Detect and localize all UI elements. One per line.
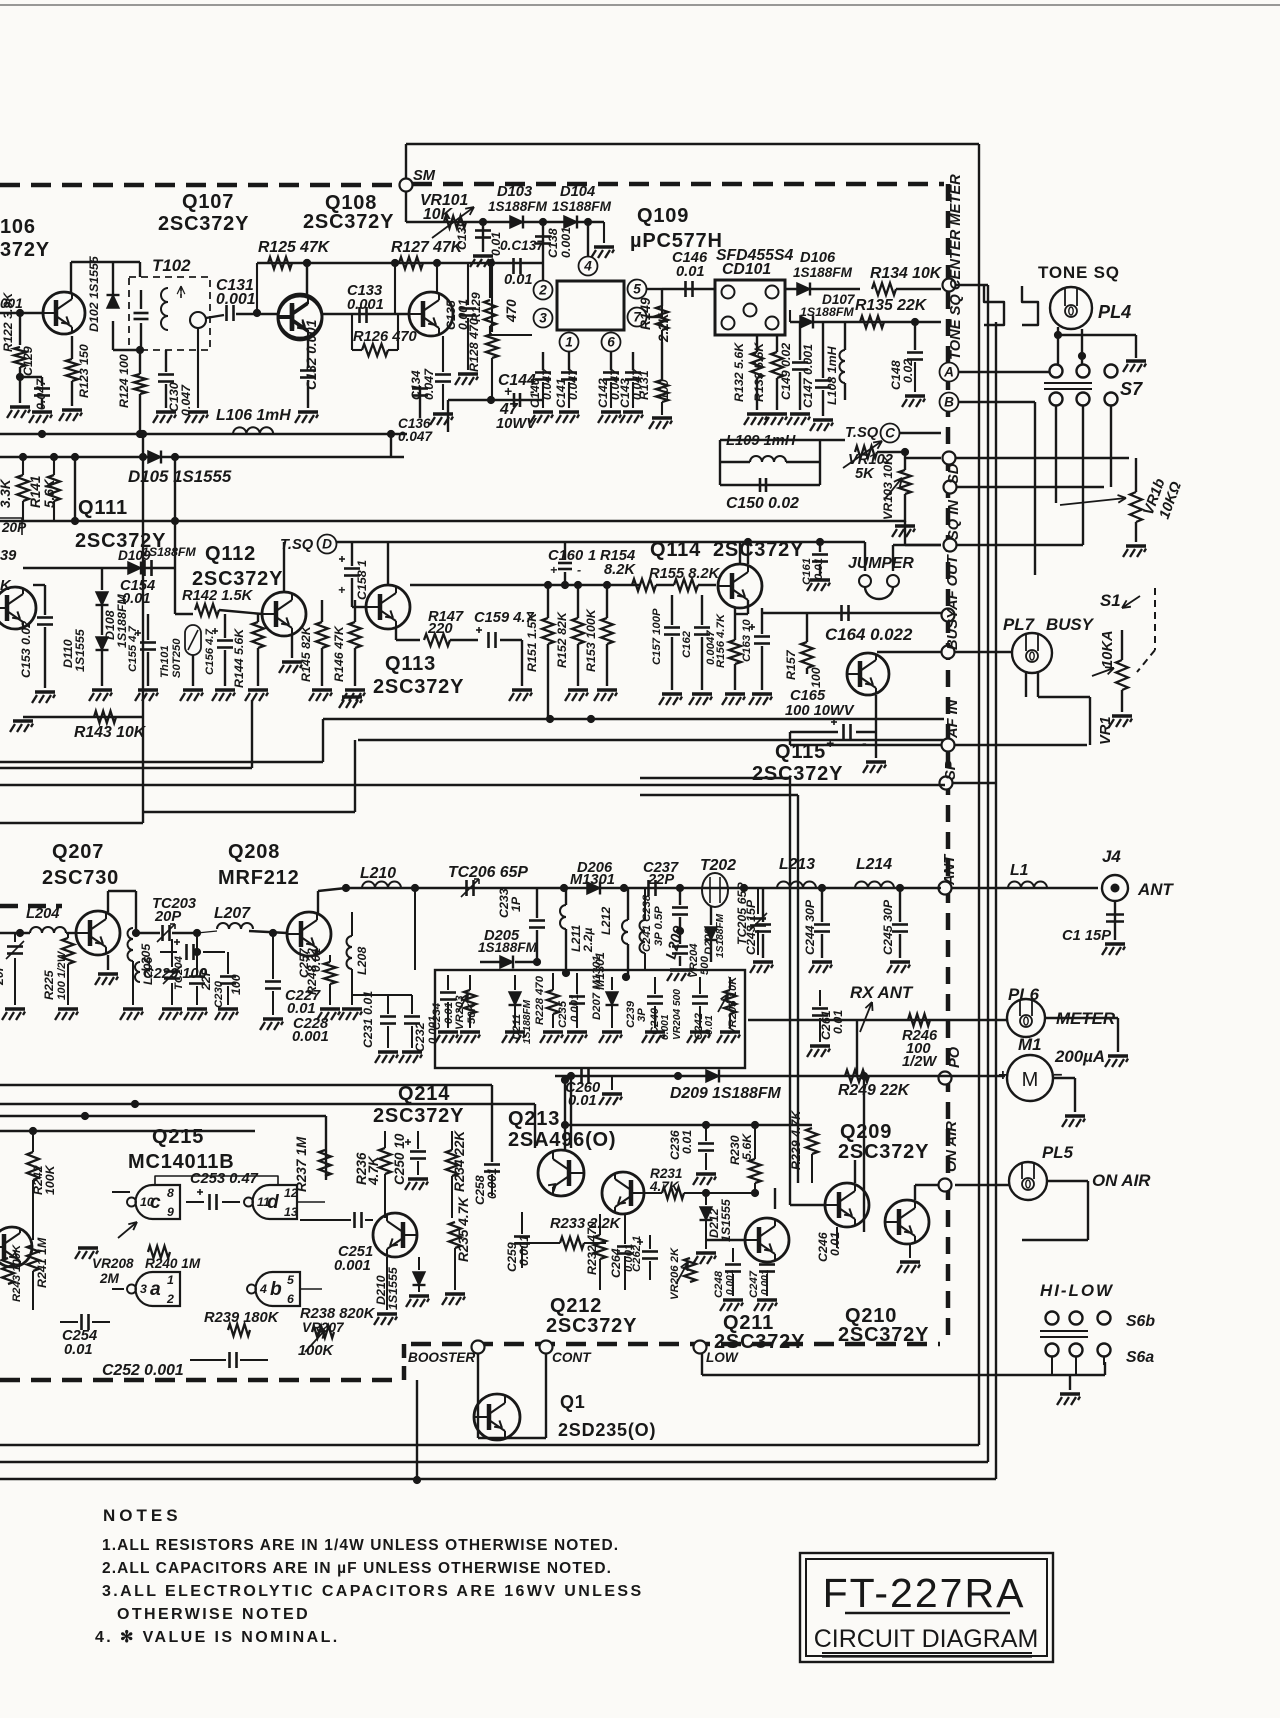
svg-text:R243 100K: R243 100K: [11, 1244, 23, 1302]
svg-text:C252 0.001: C252 0.001: [102, 1362, 184, 1379]
svg-text:T102: T102: [152, 256, 191, 275]
svg-text:100: 100: [229, 974, 243, 995]
svg-text:D209 1S188FM: D209 1S188FM: [670, 1085, 781, 1102]
svg-text:Q209: Q209: [840, 1121, 892, 1143]
svg-text:20P: 20P: [1, 520, 27, 535]
svg-text:+: +: [826, 736, 834, 751]
svg-text:R128 470: R128 470: [467, 318, 481, 372]
svg-text:L208: L208: [355, 947, 369, 975]
svg-text:Q1: Q1: [560, 1392, 586, 1412]
svg-text:2SC372Y: 2SC372Y: [373, 1105, 464, 1127]
svg-text:L210: L210: [360, 865, 396, 882]
svg-text:R234 22K: R234 22K: [452, 1130, 467, 1192]
svg-text:C155 4.7: C155 4.7: [127, 625, 139, 672]
svg-text:R225: R225: [42, 969, 56, 1000]
svg-text:2M: 2M: [99, 1271, 120, 1286]
svg-text:L204: L204: [26, 906, 59, 922]
svg-text:2SC372Y: 2SC372Y: [752, 763, 843, 785]
svg-text:R229 4.7K: R229 4.7K: [789, 1110, 803, 1170]
svg-text:S6b: S6b: [1126, 1313, 1155, 1330]
svg-text:Q212: Q212: [550, 1295, 602, 1317]
svg-text:-: -: [577, 563, 581, 577]
svg-text:C153 0.02: C153 0.02: [19, 621, 33, 678]
svg-text:C163 10: C163 10: [741, 619, 753, 662]
svg-text:1S188FM: 1S188FM: [478, 940, 538, 955]
svg-text:C248: C248: [713, 1270, 725, 1298]
svg-text:R153 100K: R153 100K: [584, 608, 598, 672]
svg-text:R125 47K: R125 47K: [258, 239, 331, 256]
svg-text:22P: 22P: [199, 967, 213, 991]
svg-text:-: -: [530, 384, 535, 399]
svg-text:M1: M1: [1018, 1035, 1041, 1054]
svg-text:2SC372Y: 2SC372Y: [192, 568, 283, 590]
svg-text:1S188FM: 1S188FM: [488, 199, 548, 214]
svg-text:3.ALL ELECTROLYTIC CAPACITORS: 3.ALL ELECTROLYTIC CAPACITORS ARE 16WV U…: [102, 1583, 644, 1600]
svg-text:D207 M1301: D207 M1301: [591, 955, 603, 1020]
svg-text:Q111: Q111: [78, 497, 128, 519]
svg-text:JUMPER: JUMPER: [848, 555, 914, 572]
svg-text:R135 22K: R135 22K: [855, 297, 928, 314]
svg-text:0.001: 0.001: [216, 291, 256, 308]
svg-text:D104: D104: [560, 184, 595, 200]
svg-text:2SC372Y: 2SC372Y: [303, 211, 394, 233]
svg-text:C231 0.01: C231 0.01: [361, 991, 375, 1048]
svg-text:5K: 5K: [855, 466, 875, 482]
svg-text:0.01: 0.01: [64, 1342, 93, 1358]
svg-text:R228 470: R228 470: [534, 975, 546, 1025]
svg-text:100: 100: [809, 667, 823, 688]
svg-text:0.01: 0.01: [813, 558, 825, 580]
svg-text:3P: 3P: [636, 1008, 648, 1022]
svg-text:1S188FM: 1S188FM: [793, 265, 853, 280]
svg-text:d: d: [267, 1192, 280, 1213]
svg-text:−: −: [1053, 1067, 1062, 1084]
svg-text:100K: 100K: [43, 1164, 57, 1195]
svg-text:ON AIR: ON AIR: [1092, 1171, 1151, 1190]
svg-text:200µA: 200µA: [1054, 1047, 1105, 1066]
svg-text:C150 0.02: C150 0.02: [726, 495, 799, 512]
svg-text:a: a: [150, 1279, 161, 1300]
svg-text:2: 2: [166, 1292, 174, 1306]
svg-text:VR204 500: VR204 500: [672, 989, 683, 1040]
svg-text:1S1555: 1S1555: [386, 1266, 400, 1310]
svg-text:Q208: Q208: [228, 841, 280, 863]
svg-text:2SC372Y: 2SC372Y: [838, 1141, 929, 1163]
svg-text:BUSY: BUSY: [945, 608, 961, 650]
svg-text:L108 1mH: L108 1mH: [825, 345, 839, 405]
svg-text:CONT: CONT: [552, 1350, 592, 1365]
svg-text:T202: T202: [700, 857, 736, 874]
svg-text:R239 180K: R239 180K: [204, 1310, 280, 1326]
svg-text:0.01: 0.01: [504, 272, 533, 288]
svg-text:0.02: 0.02: [901, 359, 915, 383]
svg-text:1: 1: [167, 1273, 174, 1287]
svg-text:D106: D106: [800, 250, 836, 266]
svg-text:R143 10K: R143 10K: [74, 724, 147, 741]
svg-text:R157: R157: [784, 649, 798, 680]
svg-text:R237 1M: R237 1M: [294, 1136, 309, 1192]
svg-text:2SC372Y: 2SC372Y: [158, 213, 249, 235]
svg-text:BOOSTER: BOOSTER: [408, 1350, 475, 1365]
svg-text:B: B: [944, 394, 954, 409]
svg-text:Q214: Q214: [398, 1083, 450, 1105]
svg-text:4: 4: [259, 1282, 267, 1296]
svg-text:L212: L212: [599, 907, 613, 935]
svg-text:µPC577H: µPC577H: [630, 230, 723, 252]
svg-text:D103: D103: [497, 184, 532, 200]
svg-text:1: 1: [565, 334, 573, 349]
svg-text:0.01: 0.01: [831, 1010, 845, 1034]
svg-text:AF IN: AF IN: [945, 699, 961, 739]
svg-text:C156 4.7: C156 4.7: [204, 628, 216, 675]
svg-text:0.01: 0.01: [828, 1232, 842, 1256]
svg-text:100: 100: [657, 379, 671, 400]
svg-text:C235: C235: [557, 1000, 569, 1028]
svg-text:8: 8: [167, 1186, 174, 1200]
svg-text:C164 0.022: C164 0.022: [825, 625, 913, 644]
svg-text:1S1555: 1S1555: [719, 1198, 733, 1242]
svg-text:Q113: Q113: [385, 653, 436, 675]
svg-text:R240 1M: R240 1M: [145, 1256, 201, 1271]
svg-text:OTHERWISE NOTED: OTHERWISE NOTED: [117, 1606, 310, 1623]
svg-text:Q107: Q107: [182, 191, 234, 213]
svg-text:106: 106: [0, 216, 36, 238]
svg-text:TONE SQ: TONE SQ: [1038, 263, 1120, 282]
svg-text:2SC372Y: 2SC372Y: [838, 1324, 929, 1346]
svg-text:C158 1: C158 1: [355, 560, 369, 600]
svg-text:0.01: 0.01: [489, 232, 503, 256]
svg-text:1S188FM: 1S188FM: [715, 913, 726, 958]
svg-text:22P: 22P: [647, 872, 674, 888]
svg-text:L214: L214: [856, 856, 892, 873]
svg-text:6: 6: [287, 1292, 294, 1306]
svg-text:+: +: [504, 384, 512, 399]
svg-text:C247: C247: [748, 1270, 760, 1298]
svg-text:ON AIR: ON AIR: [944, 1121, 960, 1172]
svg-text:4.7K: 4.7K: [366, 1155, 381, 1186]
svg-text:100K: 100K: [298, 1343, 335, 1359]
svg-text:R144 5.6K: R144 5.6K: [232, 628, 246, 688]
svg-text:0.01: 0.01: [680, 1130, 694, 1154]
svg-text:2.2µ: 2.2µ: [581, 928, 595, 953]
svg-text:372Y: 372Y: [0, 239, 50, 261]
svg-text:R145 82K: R145 82K: [299, 625, 313, 682]
svg-text:FT-227RA: FT-227RA: [823, 1570, 1026, 1616]
svg-text:VR1: VR1: [1098, 716, 1114, 745]
svg-text:R124 100: R124 100: [117, 354, 131, 408]
svg-text:R127 47K: R127 47K: [391, 239, 464, 256]
svg-text:39: 39: [0, 548, 17, 564]
svg-text:C162: C162: [681, 630, 693, 658]
svg-text:J4: J4: [1102, 847, 1121, 866]
svg-text:5: 5: [633, 281, 641, 296]
svg-text:0.001: 0.001: [334, 1258, 371, 1274]
svg-text:VR205 10K: VR205 10K: [727, 976, 739, 1035]
svg-text:L213: L213: [779, 856, 815, 873]
svg-text:10WV: 10WV: [496, 416, 537, 432]
svg-text:3.3K: 3.3K: [0, 478, 13, 508]
svg-text:9: 9: [167, 1205, 174, 1219]
svg-text:R156 4.7K: R156 4.7K: [715, 613, 727, 668]
svg-text:R141: R141: [28, 476, 43, 509]
svg-text:0.001: 0.001: [347, 297, 384, 313]
svg-text:470: 470: [504, 299, 519, 323]
svg-text:M: M: [1022, 1069, 1039, 1091]
svg-text:NOTES: NOTES: [103, 1506, 182, 1525]
svg-text:0.001: 0.001: [569, 994, 581, 1022]
svg-text:+: +: [550, 563, 557, 577]
svg-text:3: 3: [539, 310, 547, 325]
svg-text:2SC372Y: 2SC372Y: [546, 1315, 637, 1337]
svg-text:S0T250: S0T250: [171, 638, 183, 678]
svg-text:1/2W: 1/2W: [902, 1054, 937, 1070]
svg-text:C129: C129: [21, 346, 35, 376]
svg-text:1S188FM: 1S188FM: [142, 545, 196, 559]
svg-text:220: 220: [427, 621, 453, 637]
svg-text:C232: C232: [413, 1022, 427, 1052]
svg-text:ANT: ANT: [1137, 880, 1174, 899]
svg-text:Th101: Th101: [159, 645, 171, 678]
svg-text:8.2K: 8.2K: [604, 562, 636, 578]
svg-text:R134 10K: R134 10K: [870, 265, 943, 282]
svg-text:HI-LOW: HI-LOW: [1040, 1281, 1114, 1300]
svg-text:2SC372Y: 2SC372Y: [373, 676, 464, 698]
svg-text:VR103 10K: VR103 10K: [881, 455, 895, 520]
svg-text:R151 1.5K: R151 1.5K: [525, 612, 539, 672]
svg-text:SQ IN: SQ IN: [946, 500, 962, 540]
svg-text:+: +: [338, 583, 345, 597]
svg-text:PL4: PL4: [1098, 302, 1131, 322]
svg-text:C241 C238: C241 C238: [641, 894, 653, 952]
svg-text:SD: SD: [946, 463, 962, 484]
svg-text:20P: 20P: [0, 962, 6, 986]
svg-text:2SA496(O): 2SA496(O): [508, 1129, 616, 1151]
svg-text:5: 5: [287, 1273, 295, 1287]
svg-text:0.001: 0.001: [559, 227, 573, 258]
svg-text:D102 1S1555: D102 1S1555: [87, 255, 101, 332]
svg-text:1S188FM: 1S188FM: [522, 999, 533, 1044]
svg-text:13: 13: [284, 1205, 298, 1219]
svg-text:R146 47K: R146 47K: [332, 625, 346, 682]
svg-text:S6a: S6a: [1126, 1349, 1154, 1366]
svg-text:b: b: [270, 1279, 282, 1300]
svg-text:0.01: 0.01: [309, 948, 323, 972]
svg-text:RX ANT: RX ANT: [850, 983, 914, 1002]
svg-text:3P 0.5P: 3P 0.5P: [653, 906, 665, 946]
svg-text:C244 30P: C244 30P: [803, 899, 817, 955]
svg-text:1S188FM: 1S188FM: [552, 199, 612, 214]
svg-text:+: +: [998, 1067, 1007, 1084]
svg-text:C138: C138: [546, 228, 560, 258]
svg-text:ANT: ANT: [942, 854, 958, 886]
svg-text:-: -: [862, 736, 867, 751]
svg-text:5.6K: 5.6K: [740, 1133, 754, 1160]
svg-text:LOW: LOW: [706, 1350, 739, 1365]
svg-text:0.01: 0.01: [676, 264, 705, 280]
svg-text:3: 3: [140, 1282, 147, 1296]
svg-text:AF OUT: AF OUT: [945, 554, 961, 611]
svg-text:0.047: 0.047: [566, 368, 580, 400]
svg-text:C157 100P: C157 100P: [651, 608, 663, 665]
svg-text:S7: S7: [1120, 379, 1143, 399]
svg-text:1.ALL RESISTORS ARE IN 1/4W UN: 1.ALL RESISTORS ARE IN 1/4W UNLESS OTHER…: [102, 1537, 619, 1554]
svg-text:R232 470: R232 470: [585, 1221, 599, 1275]
svg-text:BUSY: BUSY: [1046, 615, 1095, 634]
svg-text:C243 15P: C243 15P: [744, 899, 758, 955]
svg-text:VR206 2K: VR206 2K: [669, 1247, 681, 1300]
svg-text:4. ✻ VALUE IS NOMINAL.: 4. ✻ VALUE IS NOMINAL.: [95, 1629, 340, 1646]
svg-text:VR208: VR208: [92, 1256, 134, 1271]
svg-text:C230: C230: [213, 980, 225, 1008]
svg-text:Q215: Q215: [152, 1126, 204, 1148]
svg-text:CIRCUIT DIAGRAM: CIRCUIT DIAGRAM: [814, 1625, 1039, 1653]
svg-text:R123 150: R123 150: [77, 344, 91, 398]
svg-text:0.001: 0.001: [725, 1269, 736, 1295]
svg-text:10K: 10K: [423, 206, 454, 223]
svg-text:SP: SP: [943, 760, 959, 780]
svg-text:R149: R149: [638, 297, 653, 330]
svg-text:R122 3.9K: R122 3.9K: [1, 292, 15, 352]
svg-text:Q109: Q109: [637, 205, 689, 227]
svg-text:C161: C161: [801, 558, 813, 585]
svg-text:PO: PO: [947, 1046, 963, 1068]
svg-text:2.ALL CAPACITORS ARE IN µF UNL: 2.ALL CAPACITORS ARE IN µF UNLESS OTHERW…: [102, 1560, 612, 1577]
svg-text:Q207: Q207: [52, 841, 104, 863]
svg-text:C: C: [885, 425, 895, 440]
svg-text:C139: C139: [455, 220, 469, 250]
svg-text:Q112: Q112: [205, 543, 256, 565]
svg-text:1P: 1P: [509, 896, 523, 912]
svg-text:0.001: 0.001: [292, 1029, 329, 1045]
svg-text:0.047: 0.047: [34, 378, 48, 410]
svg-text:C245 30P: C245 30P: [881, 899, 895, 955]
svg-text:R235 4.7K: R235 4.7K: [456, 1196, 471, 1262]
svg-text:C147 0.001: C147 0.001: [801, 344, 815, 408]
svg-text:D208: D208: [703, 927, 715, 955]
svg-text:20P: 20P: [154, 909, 181, 925]
svg-text:L207: L207: [214, 905, 251, 922]
svg-text:PL7: PL7: [1003, 615, 1036, 634]
svg-text:SM: SM: [413, 168, 436, 184]
svg-text:C250 10: C250 10: [392, 1133, 407, 1185]
svg-text:TC204: TC204: [173, 955, 185, 990]
svg-text:0.01: 0.01: [287, 1001, 316, 1017]
svg-text:R142 1.5K: R142 1.5K: [182, 588, 254, 604]
svg-text:0.047: 0.047: [540, 368, 554, 400]
svg-text:R129: R129: [469, 292, 483, 322]
svg-text:0.047: 0.047: [398, 429, 433, 444]
svg-text:0.047: 0.047: [179, 384, 193, 416]
svg-text:500: 500: [699, 955, 711, 975]
svg-text:C165: C165: [790, 688, 826, 704]
svg-text:MC14011B: MC14011B: [128, 1151, 234, 1173]
svg-text:2: 2: [538, 282, 547, 297]
svg-text:1: 1: [588, 548, 596, 564]
svg-text:R241 1M: R241 1M: [35, 1237, 49, 1288]
svg-text:4: 4: [583, 258, 592, 273]
svg-text:6: 6: [607, 334, 615, 349]
svg-text:C149 0.02: C149 0.02: [779, 343, 793, 400]
svg-text:0.01: 0.01: [704, 1015, 715, 1035]
svg-text:c: c: [150, 1192, 161, 1213]
svg-text:100 10WV: 100 10WV: [785, 703, 855, 719]
svg-text:R126 470: R126 470: [353, 329, 418, 345]
svg-text:MRF212: MRF212: [218, 867, 300, 889]
svg-text:T.SQ: T.SQ: [845, 425, 879, 441]
svg-text:R133 5.6K: R133 5.6K: [752, 342, 766, 402]
svg-text:S1: S1: [1100, 591, 1121, 610]
svg-text:L206: L206: [141, 957, 155, 985]
svg-text:C253 0.47: C253 0.47: [190, 1171, 259, 1187]
svg-text:C1 15P: C1 15P: [1062, 928, 1111, 944]
svg-text:L106 1mH: L106 1mH: [216, 407, 291, 424]
svg-text:0.001: 0.001: [517, 1235, 531, 1266]
svg-text:C234: C234: [431, 1002, 443, 1030]
svg-text:TC206 65P: TC206 65P: [448, 864, 528, 881]
svg-text:D: D: [322, 536, 332, 551]
svg-text:CD101: CD101: [722, 261, 771, 278]
svg-text:C160: C160: [548, 548, 584, 564]
svg-text:2SD235(O): 2SD235(O): [558, 1420, 656, 1440]
svg-text:L1: L1: [1010, 862, 1028, 879]
svg-text:PL5: PL5: [1042, 1143, 1074, 1162]
svg-text:R152 82K: R152 82K: [555, 611, 569, 668]
svg-text:0.001: 0.001: [760, 1269, 771, 1295]
svg-text:2SC730: 2SC730: [42, 867, 119, 889]
svg-text:R131: R131: [637, 370, 651, 400]
svg-text:100 1/2W: 100 1/2W: [56, 950, 68, 1000]
svg-text:10KA: 10KA: [1100, 630, 1116, 668]
svg-text:0.01: 0.01: [568, 1093, 597, 1109]
svg-text:1S1555: 1S1555: [73, 628, 87, 672]
svg-text:1S188FM: 1S188FM: [800, 305, 854, 319]
svg-text:R249 22K: R249 22K: [838, 1082, 911, 1099]
svg-text:TONE SQ CENTER METER: TONE SQ CENTER METER: [948, 174, 964, 360]
svg-text:0.C137: 0.C137: [500, 238, 545, 253]
svg-text:A: A: [943, 364, 954, 379]
svg-text:0.001: 0.001: [660, 1014, 671, 1040]
svg-text:R132 5.6K: R132 5.6K: [732, 342, 746, 402]
